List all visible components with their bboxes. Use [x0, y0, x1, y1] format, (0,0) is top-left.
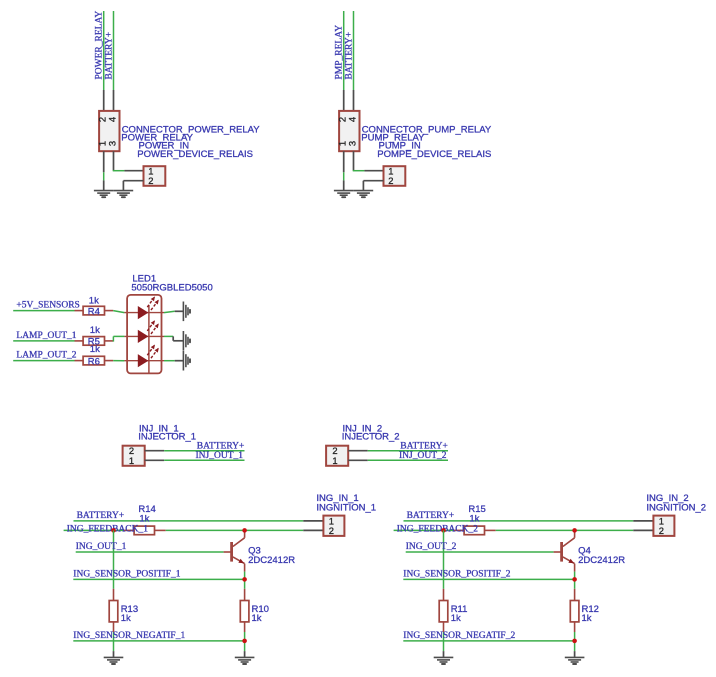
value 2DC2412R of Q3: [248, 555, 295, 566]
wire net +5V_SENSORS: [13, 310, 74, 312]
net label ING_SENSOR_NEGATIF_2: [403, 631, 515, 641]
value INGNITION_1: [316, 503, 376, 514]
svg-text:R6: R6: [88, 356, 100, 367]
transistor Q3 base lead: [224, 551, 231, 553]
LED anode/cathode pin row 1 and diode D-red: [124, 296, 164, 319]
wire net BATTERY+: [368, 450, 448, 452]
svg-text:+5V_SENSORS: +5V_SENSORS: [16, 301, 79, 311]
pin number 3: [106, 141, 117, 146]
label PUMP_RELAY: [361, 133, 425, 144]
net label ING_SENSOR_NEGATIF_1: [73, 631, 185, 641]
wire net INJ_OUT_2: [368, 459, 448, 461]
value 1k of R4: [89, 296, 99, 307]
pin lead pin1: [145, 459, 165, 461]
wire net BATTERY+: [404, 520, 634, 522]
wire pin3 to device pin1: [113, 170, 125, 172]
net label ING_SENSOR_POSITIF_1: [73, 569, 180, 579]
wire device pin2 down: [122, 181, 124, 191]
pin number 4: [106, 117, 117, 122]
connector INJ_IN_2 body: [326, 446, 348, 466]
pin number 2: [388, 175, 393, 186]
label POWER_IN: [139, 141, 190, 152]
svg-text:BATTERY+: BATTERY+: [77, 511, 125, 521]
net label BATTERY+: [407, 511, 455, 521]
label CONNECTOR_POWER_RELAY: [122, 124, 261, 135]
resistor R11 lead top: [443, 589, 445, 601]
pin lead pin2: [348, 450, 368, 452]
svg-text:1k: 1k: [252, 613, 262, 624]
svg-text:INJECTOR_2: INJECTOR_2: [342, 432, 400, 443]
name R6: [88, 356, 100, 367]
pin number 2: [336, 117, 347, 122]
pin lead ground symbol: [343, 180, 345, 190]
wire net POWER_RELAY vertical: [103, 11, 105, 90]
resistor R4 lead left: [75, 310, 84, 312]
wire to ground: [103, 172, 105, 180]
label PUMP_IN: [379, 141, 421, 152]
connector PUMP_IN body: [384, 166, 406, 186]
wire net BATTERY+: [74, 520, 304, 522]
pin lead ground row3: [175, 360, 184, 362]
value 1k of R14: [139, 514, 149, 525]
pin number 2: [329, 525, 334, 536]
svg-text:BATTERY+: BATTERY+: [344, 32, 354, 80]
svg-text:1: 1: [332, 455, 337, 466]
value 1k of R6: [90, 344, 100, 355]
resistor R11 body: [439, 601, 448, 622]
svg-text:1k: 1k: [121, 613, 131, 624]
value 1k of R13: [121, 613, 131, 624]
connector CONNECTOR_POWER_RELAY body: [99, 111, 119, 151]
net label BATTERY+: [104, 32, 114, 80]
svg-text:4: 4: [346, 117, 357, 122]
junction on ING_FEEDBACK_2: [441, 528, 446, 533]
name Q4: [578, 546, 591, 557]
svg-text:1k: 1k: [451, 613, 461, 624]
value INGNITION_2: [646, 503, 706, 514]
pin lead pin1 bottom K1: [103, 151, 105, 172]
wire net ING_SENSOR_POSITIF_1: [73, 578, 244, 580]
wire net ING_SENSOR_NEGATIF_2: [403, 640, 574, 642]
connector ING_IN_1 body: [323, 516, 344, 536]
pin lead relay battery top K1: [113, 90, 115, 112]
svg-text:POWER_RELAY: POWER_RELAY: [95, 11, 105, 80]
wire net ING_SENSOR_NEGATIF_1: [73, 640, 244, 642]
svg-text:ING_FEEDBACK_1: ING_FEEDBACK_1: [67, 525, 149, 535]
svg-text:ING_SENSOR_NEGATIF_2: ING_SENSOR_NEGATIF_2: [403, 631, 515, 641]
resistor R15 lead left: [454, 529, 464, 531]
ground: [104, 657, 124, 664]
pin lead device pin2: [363, 180, 383, 182]
wire LED1 pin row1 to ground: [164, 311, 175, 312]
pin lead ING_IN_1 pin2: [303, 529, 323, 531]
value 1k of R12: [582, 613, 592, 624]
svg-text:BATTERY+: BATTERY+: [104, 32, 114, 80]
svg-text:2: 2: [148, 175, 153, 186]
junction ING_SENSOR_NEGATIF_2: [572, 639, 577, 644]
net label ING_OUT_2: [406, 542, 457, 552]
svg-text:BATTERY+: BATTERY+: [407, 511, 455, 521]
svg-text:3: 3: [346, 141, 357, 146]
pin number 3: [346, 141, 357, 146]
wire device pin2 down: [362, 181, 364, 191]
junction emitter ING_SENSOR_POSITIF_2: [572, 577, 577, 582]
svg-text:1k: 1k: [139, 514, 149, 525]
pin number 2: [129, 445, 134, 456]
svg-text:1k: 1k: [582, 613, 592, 624]
wire net BATTERY+: [164, 450, 244, 452]
svg-text:INGNITION_2: INGNITION_2: [646, 503, 706, 514]
resistor R10 body: [240, 601, 249, 622]
resistor R15 lead right: [485, 529, 496, 531]
wire jog to LED pin: [113, 335, 124, 337]
resistor R11 lead bottom: [443, 622, 445, 632]
transistor Q3 collector: [233, 530, 245, 546]
pin lead pin3 bottom K1: [113, 151, 115, 171]
pin number 1: [659, 515, 664, 526]
transistor Q4 base bar: [560, 542, 563, 562]
label POMPE_DEVICE_RELAIS: [377, 149, 491, 160]
wire row2 jog down: [172, 336, 174, 340]
wire jog vertical: [112, 336, 114, 341]
wire net ING_OUT_2: [406, 551, 554, 553]
wire sloped to LED pin: [113, 311, 124, 313]
svg-text:5050RGBLED5050: 5050RGBLED5050: [131, 283, 212, 294]
resistor R5 lead left: [75, 340, 84, 342]
pin lead ground symbol: [103, 180, 105, 190]
svg-text:3: 3: [106, 141, 117, 146]
resistor R10 lead top: [244, 589, 246, 601]
svg-text:ING_FEEDBACK_2: ING_FEEDBACK_2: [397, 525, 479, 535]
label POWER_RELAY: [121, 133, 193, 144]
value 1k of R15: [469, 514, 479, 525]
LED LED1 cathode bus line: [148, 305, 150, 373]
name R5: [88, 337, 100, 348]
pin lead relay battery top K2: [353, 90, 355, 112]
junction collector to ING_FEEDBACK_1: [242, 528, 247, 533]
svg-text:1: 1: [129, 455, 134, 466]
net label BATTERY+: [77, 511, 125, 521]
svg-text:ING_SENSOR_POSITIF_2: ING_SENSOR_POSITIF_2: [403, 569, 510, 579]
wire net LAMP_OUT_1: [13, 340, 74, 342]
pin lead ING_IN_2 pin1: [633, 520, 653, 522]
pin number 1: [148, 165, 153, 176]
net label LAMP_OUT_2: [16, 351, 76, 361]
pin number 1: [332, 455, 337, 466]
resistor R10 lead bottom: [244, 622, 246, 632]
svg-text:LAMP_OUT_1: LAMP_OUT_1: [16, 331, 76, 341]
resistor R12 lead top: [574, 589, 576, 601]
value 2DC2412R of Q4: [578, 555, 625, 566]
svg-text:INJ_OUT_1: INJ_OUT_1: [196, 451, 244, 461]
label POWER_DEVICE_RELAIS: [137, 149, 253, 160]
name ING_IN_1: [316, 493, 358, 504]
value 1k of R5: [90, 325, 100, 336]
resistor R6 lead right: [105, 360, 114, 362]
svg-text:1k: 1k: [90, 325, 100, 336]
ground: [94, 191, 114, 198]
svg-text:BATTERY+: BATTERY+: [197, 442, 245, 452]
resistor R13 body: [109, 601, 118, 622]
ground: [354, 191, 374, 198]
name INJ_IN_2: [343, 423, 383, 434]
wire net ING_FEEDBACK_2 left: [394, 529, 454, 531]
pin lead ING_IN_1 pin1: [303, 520, 323, 522]
pin lead ground left: [113, 651, 115, 657]
junction on ING_FEEDBACK_1: [111, 528, 116, 533]
resistor R5 lead right: [105, 340, 114, 342]
pin lead relay coil top K1: [103, 90, 105, 112]
pin lead ground row2: [173, 340, 183, 342]
pin number 2: [659, 525, 664, 536]
pin number 2: [148, 175, 153, 186]
ground: [565, 657, 585, 664]
ground: [334, 191, 354, 198]
net label POWER_RELAY: [95, 11, 105, 80]
svg-text:1k: 1k: [469, 514, 479, 525]
wire net ING_SENSOR_POSITIF_2: [403, 578, 574, 580]
net label LAMP_OUT_1: [16, 331, 76, 341]
wire to ground left: [113, 632, 115, 651]
pin lead ground right: [574, 651, 576, 657]
svg-text:2: 2: [329, 525, 334, 536]
resistor R14 lead right: [155, 529, 166, 531]
svg-text:INGNITION_1: INGNITION_1: [316, 503, 376, 514]
wire R15 column down: [443, 530, 445, 588]
LED anode/cathode pin row 2 and diode D-green: [124, 320, 164, 343]
name R14: [138, 504, 155, 515]
resistor R4 body: [83, 306, 104, 315]
LED LED1 name: [132, 273, 156, 284]
net label +5V_SENSORS: [16, 301, 79, 311]
svg-text:R4: R4: [88, 306, 100, 317]
junction ING_SENSOR_NEGATIF_1: [242, 639, 247, 644]
svg-text:1k: 1k: [90, 344, 100, 355]
resistor R6 lead left: [75, 360, 84, 362]
pin lead pin2: [145, 450, 165, 452]
resistor R12 lead bottom: [574, 622, 576, 632]
pin lead device pin2: [123, 180, 143, 182]
wire net INJ_OUT_1: [164, 459, 244, 461]
svg-text:2: 2: [659, 525, 664, 536]
svg-text:2DC2412R: 2DC2412R: [578, 555, 625, 566]
LED LED1 package box: [127, 295, 161, 374]
transistor Q4 collector: [563, 530, 575, 546]
name R15: [468, 504, 485, 515]
junction emitter ING_SENSOR_POSITIF_1: [242, 577, 247, 582]
svg-text:PMP_RELAY: PMP_RELAY: [335, 25, 345, 80]
wire LED1 pin row2 to ground: [164, 335, 173, 337]
resistor R13 lead top: [113, 589, 115, 601]
name R4: [88, 306, 100, 317]
resistor R15 body: [464, 526, 484, 535]
wire emitter down: [244, 572, 246, 589]
resistor R4 lead right: [105, 310, 114, 312]
pin lead pin3 bottom K2: [353, 151, 355, 171]
svg-text:1k: 1k: [89, 296, 99, 307]
junction collector to ING_FEEDBACK_2: [572, 528, 577, 533]
value 1k of R11: [451, 613, 461, 624]
wire pin3 to device pin1: [353, 170, 365, 172]
LED LED1 value 5050RGBLED5050: [131, 283, 212, 294]
resistor R12 body: [570, 601, 579, 622]
pin number 1: [336, 141, 347, 146]
wire resistor to ground right: [244, 632, 246, 651]
pin lead pin1: [348, 459, 368, 461]
ground: [114, 191, 134, 198]
name R10: [252, 604, 269, 615]
wire resistor to ground right: [574, 632, 576, 651]
name R12: [582, 604, 599, 615]
pin lead ground right: [244, 651, 246, 657]
wire net BATTERY+ vertical: [353, 11, 355, 90]
ground: [434, 657, 454, 664]
name INJ_IN_1: [139, 423, 179, 434]
connector CONNECTOR_PUMP_RELAY body: [339, 111, 359, 151]
wire to ground: [343, 172, 345, 180]
svg-text:INJECTOR_1: INJECTOR_1: [138, 432, 196, 443]
svg-text:2DC2412R: 2DC2412R: [248, 555, 295, 566]
net label BATTERY+: [197, 442, 245, 452]
wire R14 column down: [113, 530, 115, 588]
pin lead relay coil top K2: [343, 90, 345, 112]
net label BATTERY+: [400, 442, 448, 452]
resistor R5 body: [83, 337, 104, 346]
svg-text:POWER_DEVICE_RELAIS: POWER_DEVICE_RELAIS: [137, 149, 253, 160]
pin number 1: [129, 455, 134, 466]
resistor R14 lead left: [124, 529, 134, 531]
svg-text:ING_OUT_1: ING_OUT_1: [76, 542, 127, 552]
svg-text:POMPE_DEVICE_RELAIS: POMPE_DEVICE_RELAIS: [377, 149, 491, 160]
pin number 1: [96, 141, 107, 146]
svg-text:2: 2: [388, 175, 393, 186]
net label ING_FEEDBACK_1: [67, 525, 149, 535]
label CONNECTOR_PUMP_RELAY: [362, 124, 492, 135]
resistor R14 body: [134, 526, 154, 535]
wire net ING_FEEDBACK_2 right: [496, 529, 634, 531]
pin number 4: [346, 117, 357, 122]
wire LED1 pin row3 to ground: [164, 360, 175, 362]
resistor R13 lead bottom: [113, 622, 115, 632]
net label PMP_RELAY: [335, 25, 345, 80]
connector ING_IN_2 body: [653, 516, 674, 536]
svg-text:BATTERY+: BATTERY+: [400, 442, 448, 452]
wire emitter down: [574, 572, 576, 589]
transistor Q4 emitter with arrow: [563, 557, 575, 572]
connector INJ_IN_1 body: [123, 446, 145, 466]
svg-text:LAMP_OUT_2: LAMP_OUT_2: [16, 351, 76, 361]
pin lead ground row1: [175, 310, 184, 312]
name Q3: [248, 546, 261, 557]
wire net ING_FEEDBACK_1 right: [166, 529, 304, 531]
svg-text:ING_SENSOR_NEGATIF_1: ING_SENSOR_NEGATIF_1: [73, 631, 185, 641]
pin lead ING_IN_2 pin2: [633, 529, 653, 531]
name R13: [121, 604, 138, 615]
net label ING_FEEDBACK_2: [397, 525, 479, 535]
pin number 1: [388, 165, 393, 176]
transistor Q4 base lead: [554, 551, 561, 553]
pin number 2: [332, 445, 337, 456]
wire net BATTERY+ vertical: [113, 11, 115, 90]
ground: [235, 657, 255, 664]
net label BATTERY+: [344, 32, 354, 80]
name R11: [451, 604, 468, 615]
ground rotated row3: [183, 351, 190, 371]
net label ING_OUT_1: [76, 542, 127, 552]
net label INJ_OUT_2: [399, 451, 447, 461]
pin lead device pin1: [364, 170, 383, 172]
pin number 2: [96, 117, 107, 122]
svg-text:4: 4: [106, 117, 117, 122]
svg-text:ING_SENSOR_POSITIF_1: ING_SENSOR_POSITIF_1: [73, 569, 180, 579]
value INJECTOR_1: [138, 432, 196, 443]
wire to ground left: [443, 632, 445, 651]
net label ING_SENSOR_POSITIF_2: [403, 569, 510, 579]
wire net PMP_RELAY vertical: [343, 11, 345, 90]
resistor R6 body: [83, 356, 104, 365]
svg-text:INJ_OUT_2: INJ_OUT_2: [399, 451, 447, 461]
transistor Q3 emitter with arrow: [233, 557, 245, 572]
svg-text:ING_OUT_2: ING_OUT_2: [406, 542, 457, 552]
wire to LED pin: [113, 360, 124, 362]
LED anode/cathode pin row 3 and diode D-blue: [124, 345, 164, 368]
transistor Q3 base bar: [230, 542, 233, 562]
pin number 1: [329, 515, 334, 526]
pin lead device pin1: [124, 170, 143, 172]
value INJECTOR_2: [342, 432, 400, 443]
net label INJ_OUT_1: [196, 451, 244, 461]
value 1k of R10: [252, 613, 262, 624]
pin lead pin1 bottom K2: [343, 151, 345, 172]
name ING_IN_2: [646, 493, 688, 504]
wire net ING_FEEDBACK_1 left: [64, 529, 124, 531]
pin lead ground left: [443, 651, 445, 657]
wire net LAMP_OUT_2: [13, 360, 74, 362]
ground rotated row2: [183, 331, 190, 351]
connector POWER_IN body: [144, 166, 166, 186]
wire net ING_OUT_1: [76, 551, 224, 553]
ground rotated row1: [183, 302, 190, 322]
